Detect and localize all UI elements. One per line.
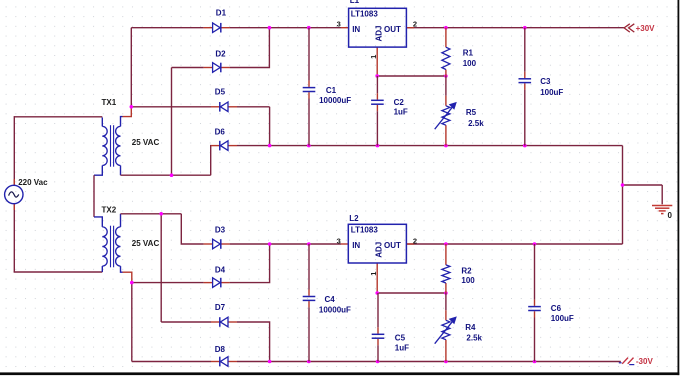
node R2-R4: [444, 291, 448, 295]
node R2 top: [444, 242, 448, 246]
wire node B2 vertical to bottom rail: [131, 283, 133, 362]
svg-text:C1: C1: [326, 86, 337, 95]
wire node B2 to D4: [132, 282, 204, 284]
svg-text:2.5k: 2.5k: [0, 0, 16, 2]
svg-text:R4: R4: [465, 323, 476, 332]
diode D6: [211, 128, 237, 151]
diode D1: [204, 9, 230, 33]
diode D3: [204, 226, 230, 249]
diode D2: [204, 49, 230, 72]
svg-text:L1: L1: [350, 0, 360, 5]
wire R2 node to C6 node: [446, 243, 535, 245]
transformer TX2: [102, 206, 121, 268]
svg-text:+30V: +30V: [636, 24, 656, 33]
wire D1 cathode to +rail junction: [230, 27, 270, 29]
wire U2 ADJ pin vertical: [376, 263, 378, 293]
node R1 top: [444, 26, 448, 30]
wire C4 node to U2 IN: [309, 243, 341, 245]
node TX2 secondary top: [159, 212, 163, 216]
wire U1 ADJ pin vertical: [376, 47, 378, 76]
node D1-D2 cathodes: [268, 26, 272, 30]
node D3-D4 cathodes: [268, 242, 272, 246]
svg-text:100: 100: [461, 276, 475, 285]
wire source bottom vertical: [13, 204, 15, 272]
wire R1 node to C3 node: [446, 27, 525, 29]
svg-text:2.5k: 2.5k: [466, 334, 482, 343]
svg-text:TX2: TX2: [102, 206, 117, 215]
capacitor C2: [0, 0, 384, 146]
resistor R1: [0, 0, 450, 76]
svg-text:L2: L2: [349, 214, 359, 223]
node C5 bottom: [376, 360, 380, 364]
wire node A vertical to + rail: [130, 28, 132, 107]
wire bottom rail to -30V: [270, 361, 621, 363]
node C3 top: [523, 26, 527, 30]
wire U2 OUT pin lead: [406, 243, 414, 245]
potentiometer R4: [0, 0, 457, 362]
wire right vertical 0-rail to ground: [622, 146, 624, 244]
wire U1 OUT to R1 node: [406, 27, 446, 29]
svg-text:LT1083: LT1083: [351, 226, 379, 235]
diode D7: [211, 303, 237, 327]
wire C3 node to +30V connector: [525, 27, 624, 29]
wire source top to TX1 primary: [14, 116, 102, 118]
svg-text:-30V: -30V: [636, 357, 654, 366]
svg-text:2.5k: 2.5k: [468, 119, 484, 128]
node C1 top: [307, 26, 311, 30]
svg-text:C6: C6: [551, 304, 562, 313]
svg-text:2: 2: [413, 236, 417, 245]
svg-text:R2: R2: [461, 266, 472, 275]
svg-text:2: 2: [413, 19, 417, 28]
svg-text:1uF: 1uF: [395, 344, 409, 353]
node TX1 secondary bottom junction: [170, 173, 174, 177]
node C6 top: [533, 242, 537, 246]
node TX2 secondary bottom: [130, 281, 134, 285]
svg-text:ADJ: ADJ: [374, 25, 383, 41]
svg-text:C2: C2: [394, 98, 405, 107]
diode D8: [211, 345, 237, 367]
svg-text:TX1: TX1: [102, 98, 117, 107]
node C1 bottom: [307, 144, 311, 148]
wire bottom rail left to D8: [132, 361, 211, 363]
svg-text:D4: D4: [215, 266, 226, 275]
node U1 ADJ: [375, 74, 379, 78]
transformer TX1: [102, 98, 121, 167]
svg-text:1uF: 1uF: [394, 108, 408, 117]
svg-text:D3: D3: [215, 226, 226, 235]
capacitor C1: [0, 0, 315, 146]
wire D3 cathode to IN node: [230, 243, 270, 245]
frame border bottom: [0, 372, 679, 375]
node R1-R5: [444, 74, 448, 78]
wire D7 anode to bottom rail: [237, 322, 270, 362]
svg-text:D1: D1: [216, 9, 227, 18]
wire D7 cathode horizontal: [161, 321, 211, 323]
svg-text:10000uF: 10000uF: [319, 96, 351, 105]
node C4 bottom: [307, 360, 311, 364]
wire IN node to C4 node: [270, 243, 309, 245]
svg-text:100uF: 100uF: [551, 314, 574, 323]
svg-text:D6: D6: [215, 128, 226, 137]
svg-text:100uF: 100uF: [540, 88, 563, 97]
node R4 bottom: [444, 360, 448, 364]
svg-text:10000uF: 10000uF: [319, 305, 351, 314]
svg-text:1: 1: [369, 272, 378, 276]
svg-text:D5: D5: [215, 88, 226, 97]
wire node A2 vertical to D7: [160, 214, 162, 322]
node C3 bottom: [523, 144, 527, 148]
svg-text:D2: D2: [215, 49, 226, 58]
svg-text:C5: C5: [395, 333, 406, 342]
wire D5 cathode right to vertical: [237, 106, 270, 108]
wire TX1 secondary bottom: [121, 174, 211, 176]
wire bottom wire up to D6: [210, 146, 212, 176]
svg-text:100: 100: [463, 59, 477, 68]
wire D2 cathode to vertical: [230, 28, 270, 68]
wire D2 vertical from bottom wire: [171, 68, 173, 176]
wire ground branch vertical: [661, 185, 663, 204]
wire node A2 to D3 drop: [161, 213, 181, 215]
node U2 ADJ: [375, 291, 379, 295]
op-amp U1 LT1083 regulator: [349, 8, 407, 47]
svg-text:3: 3: [337, 236, 341, 245]
node D5-D6 anodes: [268, 144, 272, 148]
svg-text:C3: C3: [540, 77, 551, 86]
op-amp U2 LT1083 regulator: [348, 224, 406, 263]
svg-text:IN: IN: [352, 241, 360, 250]
capacitor C4: [0, 0, 315, 362]
wire TX1-TX2 primary link vertical: [93, 175, 95, 217]
svg-text:ADJ: ADJ: [374, 242, 383, 258]
wire C1 node to U1 IN: [309, 27, 341, 29]
node D7-D8 anodes: [268, 360, 272, 364]
wire top 0-rail: [270, 145, 623, 147]
wire ADJ node to R1 bottom: [377, 75, 446, 77]
wire source top vertical: [13, 116, 15, 185]
ground: [652, 206, 672, 214]
svg-text:25 VAC: 25 VAC: [132, 239, 160, 248]
node C4 top: [307, 242, 311, 246]
capacitor C3: [0, 0, 531, 146]
wire D8 anode along bottom rail: [237, 361, 270, 363]
wire +rail junction to C1 node: [269, 27, 308, 29]
ac source V1 220 Vac: [5, 179, 23, 210]
svg-text:D7: D7: [215, 303, 226, 312]
node C2 bottom: [376, 144, 380, 148]
wire C6 node to right corner: [535, 243, 623, 245]
capacitor C6: [0, 0, 541, 362]
wire ADJ2 node to R2 bottom: [377, 292, 446, 294]
svg-text:R1: R1: [463, 49, 474, 58]
wire D5-D6 vertical: [269, 107, 271, 146]
node ground tap: [621, 183, 625, 187]
wire D2 anode: [172, 67, 204, 69]
wire TX2 secondary top to node: [121, 213, 162, 215]
wire TX1 secondary bottom lead: [120, 166, 122, 176]
wire source bottom to TX2 primary: [14, 271, 103, 273]
node R5 bottom: [444, 144, 448, 148]
svg-text:C4: C4: [325, 295, 336, 304]
svg-text:3: 3: [337, 19, 341, 28]
wire TX1 primary top lead bend: [101, 118, 103, 127]
diode D5: [211, 88, 237, 112]
svg-text:OUT: OUT: [384, 241, 401, 250]
wire U1 IN pin lead: [341, 27, 349, 29]
potentiometer R5: [0, 0, 457, 146]
svg-text:D8: D8: [215, 345, 226, 354]
wire U2 IN pin lead: [341, 243, 348, 245]
wire U2 OUT to R2 node: [406, 243, 446, 245]
wire U1 OUT pin lead: [406, 27, 414, 29]
node -30V connector: [619, 357, 654, 366]
wire D3 drop vertical: [181, 214, 203, 244]
wire D1 anode from node A: [131, 27, 203, 29]
node +30V connector: [624, 24, 655, 33]
wire TX2 primary bottom lead: [101, 266, 103, 272]
svg-text:LT1083: LT1083: [351, 10, 379, 19]
svg-text:1: 1: [369, 55, 378, 59]
svg-text:25 VAC: 25 VAC: [132, 138, 160, 147]
wire TX2 secondary top lead: [120, 214, 122, 227]
wire ground branch horizontal: [623, 184, 663, 186]
svg-text:OUT: OUT: [384, 25, 401, 34]
frame border right: [678, 0, 680, 375]
svg-text:0: 0: [668, 211, 673, 220]
node C6 bottom: [533, 360, 537, 364]
capacitor C5: [0, 0, 384, 362]
svg-text:R5: R5: [466, 108, 477, 117]
diode D4: [204, 266, 230, 288]
wire node A to D5: [131, 106, 211, 108]
svg-text:IN: IN: [352, 25, 360, 34]
wire TX2 primary top lead: [94, 217, 102, 227]
resistor R2: [0, 0, 450, 293]
svg-text:220 Vac: 220 Vac: [18, 178, 48, 187]
wire TX1 secondary top lead: [121, 117, 123, 127]
wire TX2 secondary bottom lead: [121, 266, 123, 272]
wire D6 anode to 0-rail junction: [237, 145, 270, 147]
node TX1 secondary top junction: [130, 105, 134, 109]
wire TX1 primary bottom lead: [94, 166, 102, 176]
wire D4 cathode to vertical: [230, 244, 270, 283]
